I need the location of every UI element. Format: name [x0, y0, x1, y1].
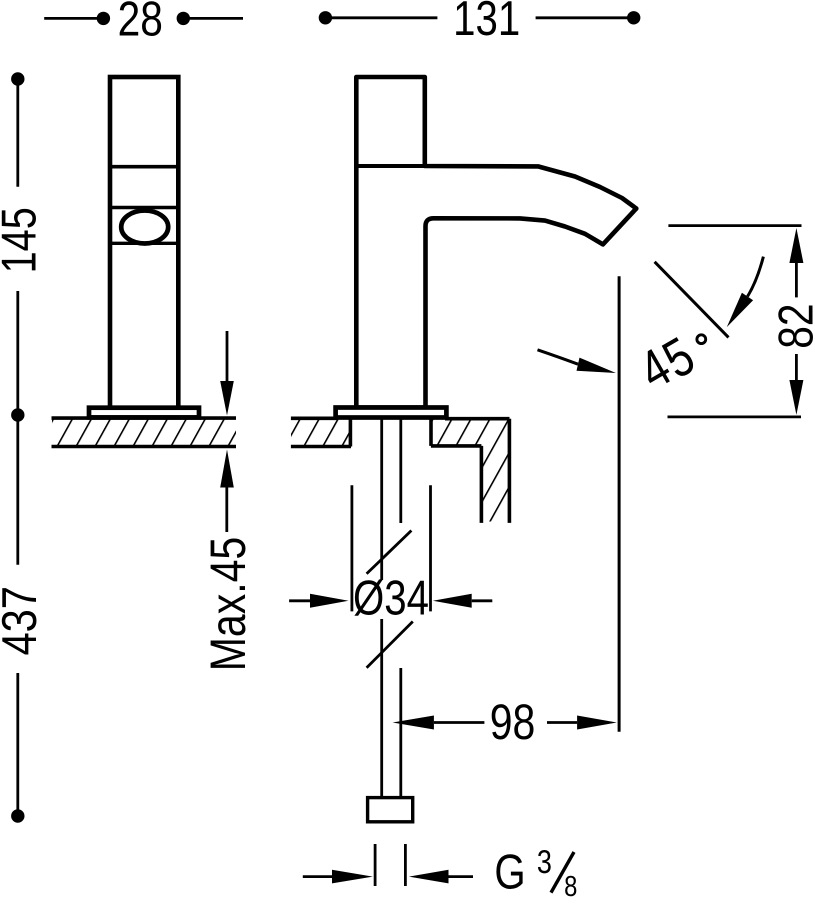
svg-text:82: 82: [769, 303, 815, 348]
svg-text:Max.45: Max.45: [200, 537, 256, 671]
svg-text:Ø34: Ø34: [353, 572, 429, 626]
svg-text:145: 145: [0, 207, 47, 273]
svg-text:G: G: [494, 846, 525, 900]
svg-text:437: 437: [0, 586, 47, 656]
svg-text:98: 98: [490, 694, 536, 750]
svg-text:3: 3: [537, 843, 552, 880]
svg-text:131: 131: [453, 0, 520, 46]
svg-text:28: 28: [118, 0, 163, 46]
svg-text:8: 8: [564, 871, 577, 900]
